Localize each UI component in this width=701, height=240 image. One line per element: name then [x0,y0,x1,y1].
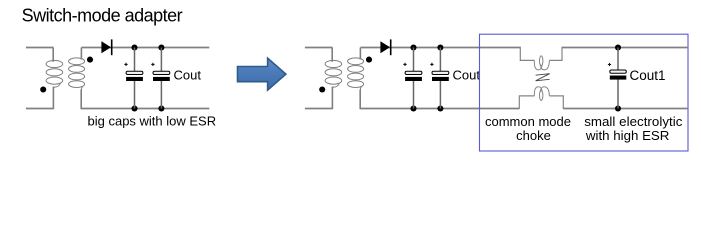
wire: right bottom rail to choke [360,108,519,110]
wire: bottom rail choke to box edge [563,108,688,110]
wire: input top stub [26,47,54,49]
wire: secondary bottom rail [81,108,209,110]
node: Cout1 top junction [615,44,621,50]
diode D1 [101,39,111,55]
transformer T2 secondary winding [348,48,364,110]
node: right cap1 bottom junction [410,105,416,111]
svg-text:common mode: common mode [485,114,571,129]
node: cap1 top junction [131,44,137,50]
wire: input bottom stub [26,108,54,110]
node: cap1 bottom junction [131,105,137,111]
common-mode choke L1 top winding [520,47,562,70]
diode D2 [380,39,390,55]
node: right cap1 top junction [410,44,416,50]
svg-text:Cout: Cout [453,68,481,83]
wire: input bottom stub (right) [305,108,333,110]
node: cap2 top junction [158,44,164,50]
blue outline box [480,34,689,151]
svg-text:Cout1: Cout1 [630,68,666,83]
choke core symbol [536,74,550,81]
node: cap2 bottom junction [158,105,164,111]
node: right cap2 bottom junction [437,105,443,111]
transformer T2 primary winding [325,48,342,110]
transformer T2 primary phase dot [319,86,325,92]
transformer T1 primary winding [46,48,63,110]
svg-text:choke: choke [516,128,551,143]
transformer T1 secondary phase dot [87,57,93,63]
wire: input top stub (right) [305,47,333,49]
transformer T1 secondary winding [69,48,85,110]
node: Cout1 bottom junction [615,105,621,111]
node: right cap2 top junction [437,44,443,50]
capacitor C3 (electrolytic) [403,48,422,109]
common-mode choke L1 bottom winding [519,87,563,109]
capacitor C2 (electrolytic) [151,48,170,109]
svg-text:with high ESR: with high ESR [585,128,670,143]
block arrow [238,58,286,90]
wire: top rail choke to box edge [562,47,688,49]
capacitor C4 (electrolytic) [430,48,449,109]
svg-text:big caps with low ESR: big caps with low ESR [88,114,217,129]
transformer T2 secondary phase dot [366,57,372,63]
svg-text:Switch-mode adapter: Switch-mode adapter [22,5,183,25]
transformer T1 primary phase dot [40,86,46,92]
svg-text:Cout: Cout [174,68,202,83]
wire: right top rail to choke [360,47,520,49]
svg-text:small electrolytic: small electrolytic [584,114,683,129]
wire: secondary top rail [81,47,209,49]
capacitor C1 (electrolytic) [124,48,142,109]
capacitor Cout1 (electrolytic) [608,48,626,109]
